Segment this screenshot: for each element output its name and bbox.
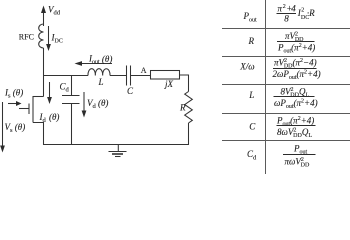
table column divider xyxy=(265,0,267,174)
table row line 3 xyxy=(222,84,350,86)
svg-text:Pout: Pout xyxy=(293,143,308,155)
transistor M1 gate lead xyxy=(19,108,29,110)
svg-text:IDC: IDC xyxy=(51,33,63,45)
svg-text:A: A xyxy=(141,66,147,75)
transistor M1 source lead xyxy=(33,123,44,146)
wire xyxy=(131,75,151,77)
wire xyxy=(71,104,73,146)
capacitor Cd branch wire xyxy=(71,76,73,96)
capacitor C xyxy=(127,66,131,86)
Id arrow xyxy=(47,82,52,104)
svg-text:2: 2 xyxy=(301,8,304,14)
wire xyxy=(180,75,189,92)
svg-text:Pout(π2+4): Pout(π2+4) xyxy=(277,42,315,54)
formula row2: pi Vdd^2 / (Pout(pi^2+4)) xyxy=(277,31,315,55)
capacitor Cd xyxy=(62,96,80,104)
svg-text:πωV2DD: πωV2DD xyxy=(285,156,311,168)
svg-text:X/ω: X/ω xyxy=(239,62,254,72)
reactance box jX xyxy=(151,71,180,80)
svg-text:Iout (θ): Iout (θ) xyxy=(88,54,112,66)
svg-text:R: R xyxy=(179,102,186,112)
svg-text:πV2DD: πV2DD xyxy=(285,31,304,43)
wire drain rail xyxy=(43,48,45,97)
svg-text:L: L xyxy=(248,90,254,100)
svg-text:L: L xyxy=(98,77,104,87)
svg-text:Pout: Pout xyxy=(243,11,258,23)
svg-text:ωPout(π2+4): ωPout(π2+4) xyxy=(274,98,318,110)
formula row3: pi Vdd^2(pi^2-4) / (2 omega Pout(pi^2+4)) xyxy=(273,57,321,81)
svg-text:Vdd: Vdd xyxy=(48,5,61,17)
resistor R xyxy=(185,92,193,124)
svg-text:2ωPout(π2+4): 2ωPout(π2+4) xyxy=(273,69,321,81)
transistor M1 gate bar xyxy=(28,104,30,115)
formula row6: Pout / (pi omega Vdd^2) xyxy=(283,143,316,168)
svg-text:RFC: RFC xyxy=(19,33,34,42)
transistor M1 channel bar xyxy=(32,96,34,123)
ground xyxy=(109,145,127,157)
svg-text:C: C xyxy=(127,86,134,96)
IDC arrow xyxy=(46,26,51,51)
transistor M1 drain lead xyxy=(33,96,44,98)
svg-text:jX: jX xyxy=(164,79,174,89)
svg-text:Vd (θ): Vd (θ) xyxy=(87,98,108,110)
Is arrow xyxy=(8,101,22,106)
svg-text:C: C xyxy=(249,122,256,132)
wire xyxy=(188,123,190,145)
table row line 5 xyxy=(222,140,350,142)
wire output branch xyxy=(44,75,89,77)
svg-text:R: R xyxy=(248,36,255,46)
table grid lines xyxy=(222,0,350,174)
svg-text:4: 4 xyxy=(291,3,296,13)
svg-text:Cd: Cd xyxy=(60,82,70,94)
wire xyxy=(110,75,127,77)
svg-text:πV2DD(π2−4): πV2DD(π2−4) xyxy=(274,57,317,69)
svg-text:·R: ·R xyxy=(307,8,315,18)
inductor RFC xyxy=(39,24,44,48)
table row line 2 xyxy=(222,56,350,58)
formula row1: (pi^2+4)/8 IDC^2 R xyxy=(277,3,316,23)
Vdd arrow xyxy=(41,6,46,27)
svg-text:8ωV2DDQL: 8ωV2DDQL xyxy=(277,127,312,139)
table row line 4 xyxy=(222,113,350,115)
formula row5: Pout(pi^2+4) / (8 omega Vdd^2 QL) xyxy=(276,115,316,139)
Vs arrow xyxy=(0,102,5,153)
table row line 1 xyxy=(222,28,350,30)
inductor L xyxy=(88,69,110,76)
Vd arrow xyxy=(82,92,87,118)
svg-text:8: 8 xyxy=(284,14,289,24)
bottom wire xyxy=(44,144,189,146)
svg-text:Vs (θ): Vs (θ) xyxy=(5,122,26,134)
svg-text:Cd: Cd xyxy=(247,149,257,161)
svg-text:Is (θ): Is (θ) xyxy=(4,88,23,100)
Iout arrow xyxy=(75,61,113,66)
svg-text:Id (θ): Id (θ) xyxy=(39,112,60,124)
formula row4: 8 Vdd^2 QL / (omega Pout(pi^2+4)) xyxy=(274,86,318,110)
